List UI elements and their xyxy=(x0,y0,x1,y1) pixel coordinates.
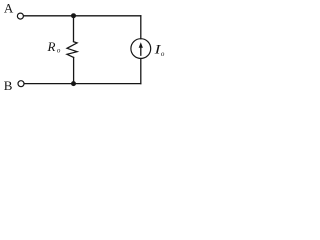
wire bottom horizontal xyxy=(24,83,141,85)
wire resistor top lead xyxy=(73,16,75,42)
resistor R_o zigzag xyxy=(67,42,77,58)
wire right vertical upper xyxy=(140,16,142,39)
current source arrow xyxy=(139,42,143,55)
wire right vertical lower xyxy=(140,59,142,84)
resistor value label R_o xyxy=(47,39,61,55)
current source value label I_o xyxy=(153,42,165,58)
current source U1 circle xyxy=(131,39,151,59)
junction top xyxy=(71,13,76,18)
svg-text:A: A xyxy=(4,0,14,15)
terminal B xyxy=(18,81,24,87)
svg-text:o: o xyxy=(57,47,61,55)
svg-text:o: o xyxy=(161,50,165,58)
terminal A xyxy=(17,13,23,19)
junction bottom xyxy=(71,81,76,86)
wire resistor bottom lead xyxy=(73,58,75,84)
wire top horizontal A to top-right corner xyxy=(24,15,141,17)
svg-text:R: R xyxy=(47,39,56,54)
svg-text:B: B xyxy=(4,78,13,93)
